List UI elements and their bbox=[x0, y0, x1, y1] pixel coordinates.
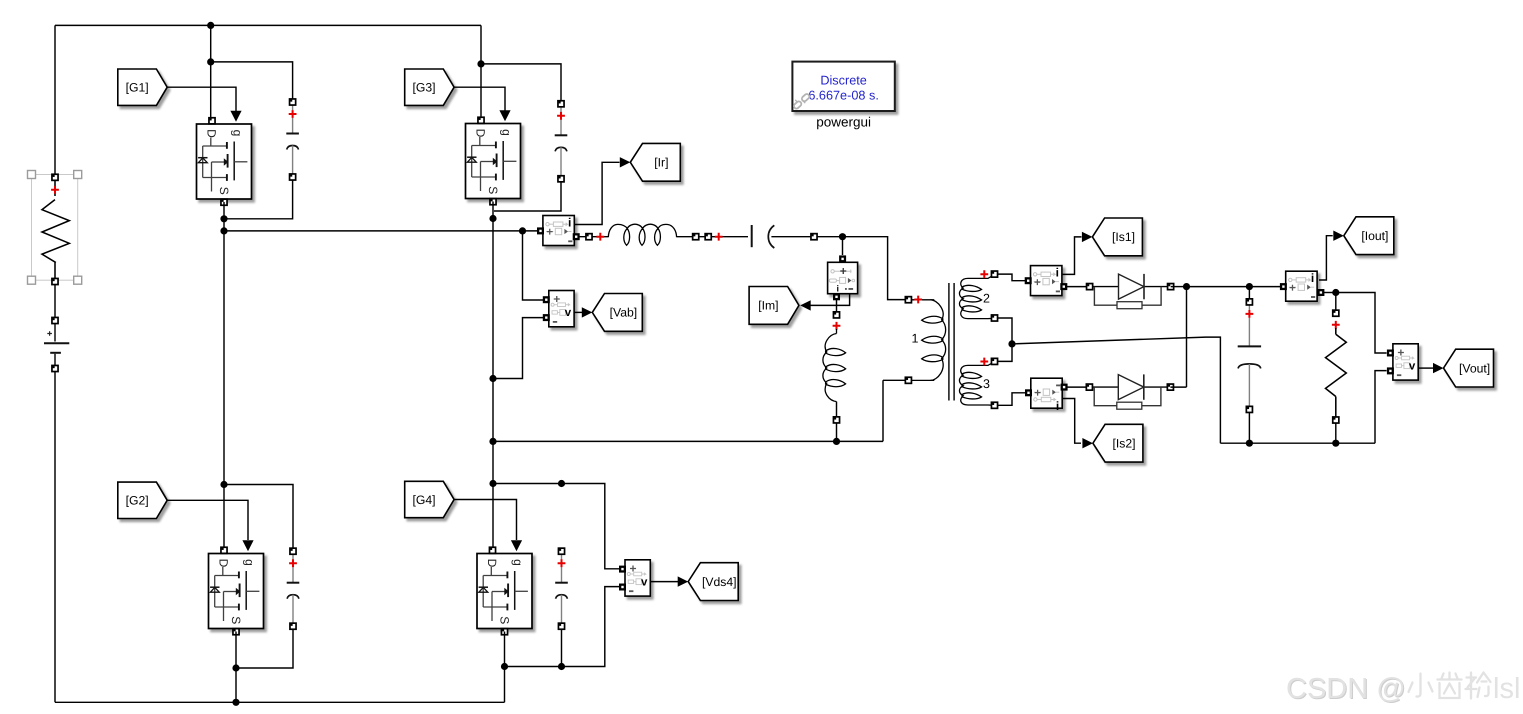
svg-text:2: 2 bbox=[983, 292, 990, 306]
junction load ground bbox=[1332, 440, 1339, 447]
voltage measurement Vab bbox=[543, 291, 574, 327]
Goto tag [Ir] bbox=[630, 143, 680, 181]
wire rectifier output rail bbox=[1187, 286, 1283, 288]
svg-text:[Vds4]: [Vds4] bbox=[702, 575, 737, 589]
wire cap top stub bbox=[1248, 287, 1250, 299]
wire primary return rail bbox=[493, 380, 905, 441]
wire Vab- branch bbox=[493, 318, 545, 379]
wire bottom rail bbox=[55, 701, 505, 703]
inductor Lr bbox=[608, 224, 676, 245]
wire Vab+ branch bbox=[523, 231, 545, 300]
current measurement Ir bbox=[537, 216, 580, 246]
From tag [G2] bbox=[118, 482, 167, 518]
svg-text:Discrete: Discrete bbox=[820, 73, 867, 87]
wire load to ground rail bbox=[1335, 423, 1337, 443]
current measurement Im bbox=[828, 255, 858, 300]
output capacitor Cout bbox=[1238, 299, 1261, 413]
wire winding2 bottom to center tap bbox=[997, 318, 1012, 344]
svg-text:powergui: powergui bbox=[816, 115, 871, 130]
wire Q4 snubber branch bbox=[493, 484, 622, 569]
wire winding3 top to center tap bbox=[997, 344, 1012, 362]
wire Ir signal bbox=[574, 162, 619, 224]
wire [G2] to Q2 gate bbox=[167, 500, 248, 540]
junction top rail / Q1 drain bbox=[207, 22, 214, 29]
wire node C to transformer primary bbox=[843, 237, 906, 300]
wire top rail to Q3 drain bbox=[480, 25, 482, 117]
junction load top bbox=[1332, 289, 1339, 296]
svg-text:D: D bbox=[216, 559, 230, 568]
wire winding2 to Is1 bbox=[997, 274, 1026, 281]
wire Vout+ branch bbox=[1336, 293, 1387, 354]
wire cap bottom to rail bbox=[1248, 412, 1250, 443]
junction Q4 snubber cap bbox=[558, 480, 565, 487]
wire Q3 snubber branch bbox=[481, 64, 561, 104]
gate arrow Q1 bbox=[230, 111, 241, 122]
svg-text:[G3]: [G3] bbox=[412, 81, 435, 95]
wire Im signal to [Im] bbox=[810, 294, 850, 306]
svg-text:[Vab]: [Vab] bbox=[610, 306, 638, 320]
svg-text:D: D bbox=[473, 129, 487, 138]
Goto tag [Vout] bbox=[1444, 349, 1494, 387]
gate arrow Q2 bbox=[242, 540, 253, 551]
current measurement Is1 bbox=[1025, 266, 1068, 296]
junction diodes common cathode bbox=[1183, 283, 1190, 290]
Goto tag [Iout] bbox=[1344, 217, 1394, 255]
svg-text:+: + bbox=[1034, 387, 1041, 399]
svg-text:[G4]: [G4] bbox=[412, 493, 435, 507]
junction node B / Vds4 branch bbox=[489, 480, 496, 487]
svg-text:S: S bbox=[498, 616, 512, 624]
wire Vds4 output bbox=[650, 581, 678, 583]
arrow into [Vds4] bbox=[678, 576, 689, 586]
watermark CSDN bbox=[1286, 673, 1520, 706]
arrow into [Vout] bbox=[1433, 363, 1444, 373]
svg-text:g: g bbox=[499, 129, 513, 136]
wire D2 out bbox=[1170, 386, 1186, 388]
load resistor Rload bbox=[1326, 310, 1347, 423]
selection box around input resistor bbox=[28, 171, 82, 285]
wire winding3 to Is2 bbox=[997, 393, 1026, 406]
arrow into [Ir] bbox=[620, 157, 631, 167]
svg-text:i: i bbox=[1056, 399, 1059, 413]
wire D1 to node OUT+ bbox=[1171, 286, 1187, 288]
wire Iout signal bbox=[1319, 236, 1333, 280]
wire Is1 signal bbox=[1062, 237, 1082, 275]
junction Vds4- tap bbox=[558, 663, 565, 670]
junction Q2 snubber return bbox=[232, 664, 239, 671]
wire C4 return bbox=[508, 629, 562, 666]
junction node A to Vab+ bbox=[519, 227, 526, 234]
powergui block bbox=[792, 62, 894, 111]
diode D2 bbox=[1086, 374, 1173, 409]
junction center tap bbox=[1008, 340, 1015, 347]
svg-text:D: D bbox=[204, 129, 218, 138]
wire Q2 snubber branch bbox=[224, 485, 293, 549]
snubber capacitor C1 bbox=[286, 99, 299, 180]
svg-text:i: i bbox=[837, 283, 840, 293]
wire diode D2 riser bbox=[1186, 287, 1188, 388]
DC voltage source battery bbox=[44, 317, 69, 371]
junction node A bbox=[220, 227, 227, 234]
wire center tap return (slanted) bbox=[1012, 337, 1220, 443]
svg-text:v: v bbox=[1409, 360, 1416, 372]
voltage measurement Vout bbox=[1387, 344, 1418, 380]
wire DC source down to ground rail bbox=[54, 372, 56, 703]
wire Vab output bbox=[574, 311, 582, 313]
wire Im out to Lm bbox=[836, 300, 838, 312]
svg-text:3: 3 bbox=[983, 377, 990, 391]
wire Vout- branch bbox=[1375, 371, 1387, 444]
wire Ir out to Lr bbox=[580, 233, 609, 241]
wire Q1 source down node A bbox=[223, 202, 225, 551]
wire Is1 to diode D1 bbox=[1067, 286, 1090, 288]
wire Lr to Cr bbox=[677, 233, 748, 241]
diode D1 bbox=[1087, 274, 1174, 309]
junction Q4 snubber return bbox=[501, 663, 508, 670]
wire Is2 signal bbox=[1062, 399, 1081, 444]
transformer winding 1 (primary) bbox=[905, 296, 945, 384]
svg-text:S: S bbox=[486, 186, 500, 194]
wire resistor to DC source bbox=[54, 285, 56, 318]
svg-text:i: i bbox=[1311, 271, 1314, 285]
wire node C down to Im bbox=[842, 237, 844, 255]
wire Q1 drain riser bbox=[210, 25, 212, 118]
wire C2 return bbox=[239, 629, 293, 668]
arrow into [Im] bbox=[800, 300, 811, 310]
svg-text:[Vout]: [Vout] bbox=[1459, 361, 1490, 375]
MOSFET Q1 bbox=[197, 118, 252, 206]
From tag [G1] bbox=[118, 69, 167, 105]
svg-text:i: i bbox=[568, 216, 571, 230]
wire Vds4- branch bbox=[562, 587, 622, 667]
junction Q3 snubber branch bbox=[477, 60, 484, 67]
gate arrow Q4 bbox=[511, 540, 522, 551]
powergui broken-link icon bbox=[793, 93, 810, 110]
arrow into [Vab] bbox=[582, 307, 593, 317]
svg-text:+: + bbox=[1034, 277, 1041, 289]
svg-text:[Ir]: [Ir] bbox=[654, 156, 668, 170]
From tag [G4] bbox=[405, 481, 454, 517]
svg-text:g: g bbox=[242, 559, 256, 566]
wire Q1 snubber branch bbox=[211, 62, 293, 99]
svg-text:lsl: lsl bbox=[1493, 673, 1520, 705]
Goto tag [Vab] bbox=[592, 294, 642, 332]
wire [G3] to Q3 gate bbox=[454, 87, 505, 110]
svg-text:[G1]: [G1] bbox=[126, 81, 149, 95]
wire Q2 source to rail bbox=[235, 632, 237, 703]
MOSFET Q2 bbox=[209, 547, 264, 635]
svg-text:g: g bbox=[511, 559, 525, 566]
transformer winding 2 (secondary top) bbox=[959, 270, 997, 321]
From tag [G3] bbox=[405, 69, 454, 105]
junction Q2 ground rail bbox=[232, 699, 239, 706]
svg-text:v: v bbox=[641, 576, 648, 588]
wire [G4] to Q4 gate bbox=[454, 500, 516, 541]
svg-text:[Iout]: [Iout] bbox=[1361, 229, 1388, 243]
svg-text:g: g bbox=[230, 130, 244, 137]
powergui label bbox=[816, 115, 871, 130]
Goto tag [Is2] bbox=[1093, 424, 1143, 462]
inductor Lm bbox=[823, 329, 846, 423]
junction node C bbox=[839, 233, 846, 240]
svg-text:S: S bbox=[229, 616, 243, 624]
MOSFET Q4 bbox=[477, 547, 532, 635]
wire output ground rail bbox=[1220, 442, 1375, 444]
wire node A to Ir measure bbox=[224, 230, 539, 232]
wire Q3 snubber return bbox=[494, 182, 561, 211]
wire Cr to node C bbox=[771, 234, 842, 240]
svg-text:i: i bbox=[1056, 266, 1059, 280]
junction Q1 snubber branch bbox=[207, 58, 214, 65]
junction Q2 snubber branch bbox=[220, 481, 227, 488]
snubber capacitor C2 bbox=[287, 548, 300, 629]
svg-text:6.667e-08 s.: 6.667e-08 s. bbox=[808, 88, 879, 102]
arrow into [Is2] bbox=[1082, 438, 1093, 448]
wire load branch down bbox=[1335, 293, 1337, 311]
junction below Q3 source bbox=[489, 215, 496, 222]
inductor Lm ports bbox=[833, 312, 841, 330]
wire C1 return to node A bbox=[227, 180, 293, 219]
wire Vout output bbox=[1418, 367, 1433, 369]
Goto tag [Im] bbox=[749, 287, 799, 325]
wire Is2 to diode D2 bbox=[1067, 386, 1089, 388]
Goto tag [Vds4] bbox=[688, 563, 738, 601]
gate arrow Q3 bbox=[499, 110, 510, 121]
arrow into [Iout] bbox=[1333, 231, 1344, 241]
junction output cap bbox=[1246, 283, 1253, 290]
svg-text:+: + bbox=[840, 264, 847, 278]
wire Lm to return rail bbox=[836, 423, 838, 441]
junction node B to Vab- bbox=[489, 375, 496, 382]
wire Iout to load bbox=[1324, 292, 1336, 294]
wire top rail bbox=[55, 24, 481, 26]
Goto tag [Is1] bbox=[1092, 218, 1142, 256]
svg-text:[Is1]: [Is1] bbox=[1112, 230, 1135, 244]
svg-text:CSDN @: CSDN @ bbox=[1286, 673, 1406, 705]
wire left source column top bbox=[54, 25, 56, 174]
voltage measurement Vds4 bbox=[619, 560, 650, 596]
snubber capacitor C4 bbox=[555, 548, 568, 629]
svg-text:[Im]: [Im] bbox=[758, 299, 778, 313]
svg-text:+: + bbox=[546, 227, 553, 239]
svg-text:+: + bbox=[1289, 282, 1296, 294]
junction return rail node B bbox=[489, 438, 496, 445]
current measurement Is2 bbox=[1025, 378, 1068, 413]
svg-text:[Is2]: [Is2] bbox=[1112, 437, 1135, 451]
svg-text:D: D bbox=[485, 559, 499, 568]
junction cap ground bbox=[1246, 440, 1253, 447]
transformer core bbox=[949, 283, 954, 401]
junction Lm / return rail bbox=[833, 438, 840, 445]
svg-text:1: 1 bbox=[912, 332, 919, 346]
wire Q3 source down node B bbox=[492, 202, 494, 551]
snubber capacitor C3 bbox=[555, 101, 568, 182]
wire [G1] to Q1 gate bbox=[167, 87, 236, 111]
MOSFET Q3 bbox=[466, 117, 521, 205]
transformer winding 3 (secondary bottom) bbox=[959, 358, 997, 409]
resistor R input (series RLC branch) bbox=[42, 174, 69, 284]
arrow into [Is1] bbox=[1082, 232, 1093, 242]
svg-text:v: v bbox=[565, 307, 572, 319]
capacitor Cr bbox=[752, 225, 775, 248]
current measurement Iout bbox=[1280, 271, 1325, 301]
svg-text:[G2]: [G2] bbox=[126, 494, 149, 508]
wire Q4 source to rail bbox=[504, 632, 506, 703]
svg-text:S: S bbox=[217, 187, 231, 195]
junction Q1 snubber return bbox=[220, 215, 227, 222]
